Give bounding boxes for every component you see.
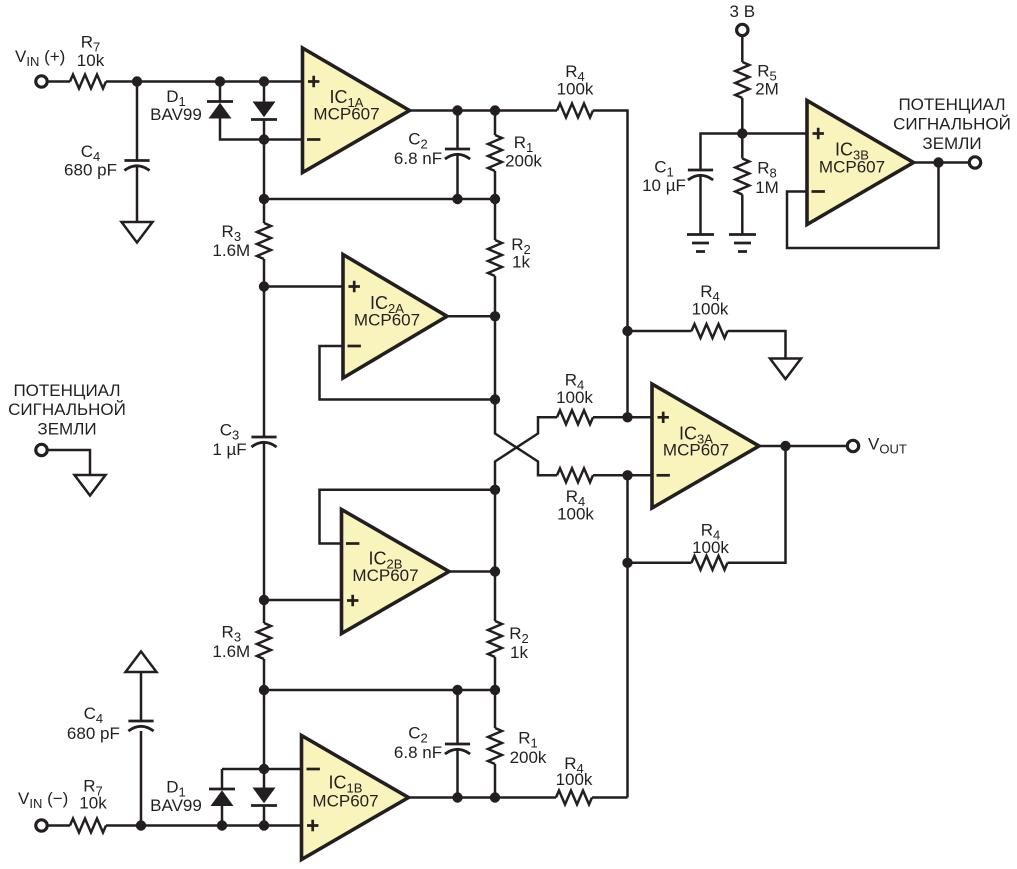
wire to IC1B - input [222,768,302,771]
resistor R7 (bottom) [70,819,106,833]
wire R8 to ground [741,195,744,235]
wire IC2B output [449,570,495,573]
diode D1d (bottom right, pointing down) [263,769,266,788]
node IC2A feedback junction [490,394,500,404]
svg-text:200k: 200k [510,748,547,767]
wire IC1B output [409,796,557,799]
svg-text:100k: 100k [692,300,729,319]
op-amp IC1A [303,48,410,173]
resistor R4 (top) [557,104,593,118]
resistor R1 (top) [494,111,497,136]
node IC3A minus junction [622,470,632,480]
wire R4 to right rail corner [593,111,628,418]
capacitor C2 (top) [456,111,459,150]
wire IC3A output [759,445,847,448]
op-amp IC3B [807,101,914,225]
wire R7 to IC1A + input [106,80,303,83]
svg-text:ЗЕМЛИ: ЗЕМЛИ [37,420,96,439]
svg-text:MCP607: MCP607 [663,441,729,460]
svg-text:10k: 10k [79,794,107,813]
capacitor C2 (bottom) [456,690,459,744]
wire IC1A output [410,109,558,112]
svg-text:MCP607: MCP607 [313,105,379,124]
svg-text:BAV99: BAV99 [150,796,202,815]
svg-text:6.8 nF: 6.8 nF [394,149,442,168]
op-amp IC3A [652,384,759,508]
svg-text:1k: 1k [512,253,530,272]
svg-text:200k: 200k [505,152,542,171]
op-amp IC2A [343,255,447,379]
node IC3A plus junction [622,412,632,422]
ground (earth, under R8) [729,235,756,252]
svg-text:VIN (+): VIN (+) [15,47,65,69]
wire IC2A output [447,315,495,318]
svg-text:MCP607: MCP607 [312,792,378,811]
svg-text:MCP607: MCP607 [354,311,420,330]
svg-text:MCP607: MCP607 [352,566,418,585]
resistor R4 (cross upper) [557,410,593,424]
wire IC3B output [914,161,970,164]
terminal signal ground (left) [36,444,47,455]
svg-text:100k: 100k [556,770,593,789]
node feedback R4 tap [622,558,632,568]
ground (signal, top-left) [122,222,153,243]
resistor R3 (top) [263,199,266,223]
resistor R5 [735,62,749,98]
wire right rail lower [626,475,629,797]
diode D1b (right, pointing down) [263,82,266,102]
terminal VIN- [36,820,47,831]
svg-text:680 pF: 680 pF [64,161,117,180]
node IC3B output junction [933,157,943,167]
wire node to C1 [701,134,743,171]
wire to IC2A + input [264,285,343,288]
terminal VOUT [847,440,858,451]
capacitor C4 (bottom) [128,720,153,723]
wire IC2B rail [494,490,497,572]
svg-text:100k: 100k [557,505,594,524]
resistor R1 (bottom) [494,690,497,728]
svg-text:BAV99: BAV99 [150,105,202,124]
svg-text:1.6M: 1.6M [212,642,250,661]
svg-text:3 В: 3 В [730,2,756,21]
wire terminal to R7 bottom [48,824,71,827]
ground (signal, left-middle) [75,475,106,496]
node IC1A minus junction [259,134,269,144]
ground (signal, middle right) [770,359,801,380]
wire IC2A rail to lower cross R4 [495,400,557,476]
wire C4 to ground (up) [140,672,143,721]
wire to IC2B + input [264,599,342,602]
node IC1A output junctions [452,105,462,115]
terminal VIN+ [36,76,47,87]
wire lower cross R4 to IC3A - input [593,474,652,477]
node mid R4 tap [622,326,632,336]
svg-text:ПОТЕНЦИАЛ: ПОТЕНЦИАЛ [898,95,1005,114]
resistor R7 (top) [70,75,106,89]
capacitor C1 [688,169,713,172]
resistor R4 (cross lower) [557,468,593,482]
op-amp IC2B [342,510,450,634]
wire feedback R4 to - rail [628,562,692,565]
resistor R8 [741,134,744,159]
svg-text:СИГНАЛЬНОЙ: СИГНАЛЬНОЙ [8,400,126,419]
node IC3A output junction [780,441,790,451]
wire R7 to IC1B + input [106,824,302,827]
node IC1B output junctions [452,792,462,802]
svg-text:ЗЕМЛИ: ЗЕМЛИ [922,134,981,153]
svg-text:1 µF: 1 µF [212,440,246,459]
node IC2A output junction [490,311,500,321]
svg-text:1M: 1M [755,178,779,197]
svg-text:10k: 10k [77,51,105,70]
svg-text:680 pF: 680 pF [67,724,120,743]
node IC2B feedback junction [490,485,500,495]
node 3V divider junction [737,128,747,138]
resistor R4 (bottom) [556,791,592,805]
svg-text:100k: 100k [556,388,593,407]
wire R5 to divider node [741,98,744,134]
diode D1a (left, pointing up) [219,82,222,102]
wire IC3A feedback down [728,446,786,563]
svg-text:100k: 100k [692,538,729,557]
svg-text:100k: 100k [557,80,594,99]
wire IC2A out rail down [494,316,497,399]
wire rail down to C3 [263,287,266,438]
svg-text:VIN (−): VIN (−) [18,789,68,811]
wire terminal to R7 [48,80,71,83]
terminal 3V [737,24,748,35]
node IC1B minus junction [259,764,269,774]
svg-text:1k: 1k [510,643,528,662]
wire rail down to diode line [263,690,266,769]
capacitor C4 (top) [124,159,149,162]
top rail (feedback) [264,198,495,201]
terminal IC3B output [969,157,980,168]
wire 3V to R5 [741,36,744,62]
resistor R2 (top) [494,199,497,240]
diode D1c (bottom left, pointing up) [221,769,224,789]
svg-text:СИГНАЛЬНОЙ: СИГНАЛЬНОЙ [893,115,1011,134]
capacitor C4 (top) lead [136,82,139,161]
wire node down to top rail [263,140,266,200]
op-amp IC1B [302,736,409,860]
wire D1 to IC1A - input [264,138,303,141]
resistor R2 (bottom) [494,572,497,622]
wire IC2B feedback [320,490,496,544]
node IC2A plus junction [259,281,269,291]
resistor R3 (bottom) [263,600,266,623]
wire upper cross R4 to IC3A + input [593,416,652,419]
wire node to IC3B + input [742,132,807,135]
node top input junctions [132,76,142,86]
bottom rail [264,689,495,692]
node bottom input junctions [136,820,146,830]
node IC2B plus junction [259,595,269,605]
node bottom rail junctions [259,685,269,695]
capacitor C3 [251,436,276,439]
resistor R4 (feedback) [692,556,728,570]
resistor R4 (middle right, to signal ground) [628,330,692,333]
ground (earth, under C1) [687,235,714,252]
svg-text:6.8 nF: 6.8 nF [394,743,442,762]
wire IC3B feedback [787,163,939,249]
svg-text:MCP607: MCP607 [819,158,885,177]
wire IC2A feedback [320,346,496,400]
wire IC2B rail to upper cross R4 [495,417,557,490]
node top rail junctions [259,194,269,204]
node IC2B output junction [490,566,500,576]
svg-text:10 µF: 10 µF [642,176,686,195]
wire terminal to ground [48,450,91,475]
wire C3 down to IC2B node [263,443,266,601]
capacitor C4 (bottom) lead [140,731,143,826]
ground (signal, bottom-left, pointing up) [126,652,157,673]
svg-text:1.6M: 1.6M [212,241,250,260]
svg-text:ПОТЕНЦИАЛ: ПОТЕНЦИАЛ [13,381,120,400]
wire R4 to right rail [592,796,628,799]
wire C4 to ground [136,166,139,222]
svg-text:2M: 2M [755,80,779,99]
